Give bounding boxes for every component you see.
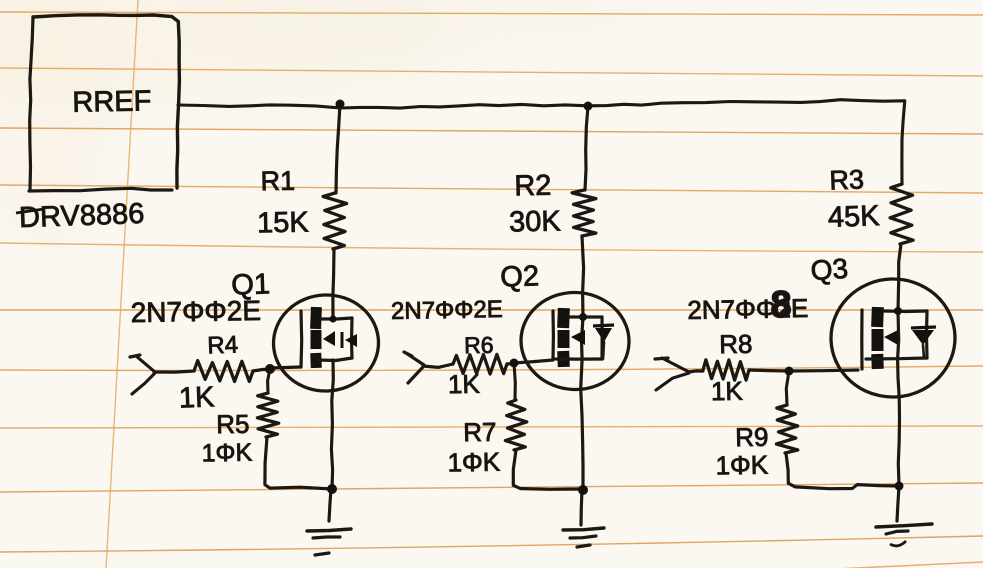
svg-text:RREF: RREF (72, 85, 151, 118)
svg-text:R4: R4 (207, 331, 239, 359)
svg-text:1ΦK: 1ΦK (447, 447, 501, 478)
svg-text:Q2: Q2 (500, 260, 540, 293)
svg-text:DRV8886: DRV8886 (19, 198, 145, 234)
svg-text:15K: 15K (257, 207, 310, 240)
svg-text:R9: R9 (735, 422, 769, 453)
svg-text:R8: R8 (719, 329, 753, 360)
svg-text:1K: 1K (711, 376, 744, 407)
svg-text:2N7ΦΦ2E: 2N7ΦΦ2E (130, 295, 261, 328)
svg-text:R1: R1 (260, 166, 295, 197)
svg-text:1ΦK: 1ΦK (201, 439, 252, 468)
svg-text:8: 8 (771, 284, 792, 325)
svg-text:45K: 45K (827, 200, 880, 234)
svg-text:R2: R2 (514, 170, 552, 203)
svg-text:1ΦK: 1ΦK (715, 450, 769, 481)
svg-text:30K: 30K (509, 206, 562, 239)
svg-text:1K: 1K (178, 381, 215, 414)
svg-text:R7: R7 (463, 417, 497, 448)
svg-text:R5: R5 (216, 409, 250, 440)
svg-text:R6: R6 (464, 332, 494, 359)
svg-text:2N7ΦΦ2E: 2N7ΦΦ2E (391, 296, 503, 325)
svg-text:Q3: Q3 (810, 253, 849, 287)
svg-text:R3: R3 (829, 164, 865, 195)
svg-text:1K: 1K (448, 369, 481, 400)
